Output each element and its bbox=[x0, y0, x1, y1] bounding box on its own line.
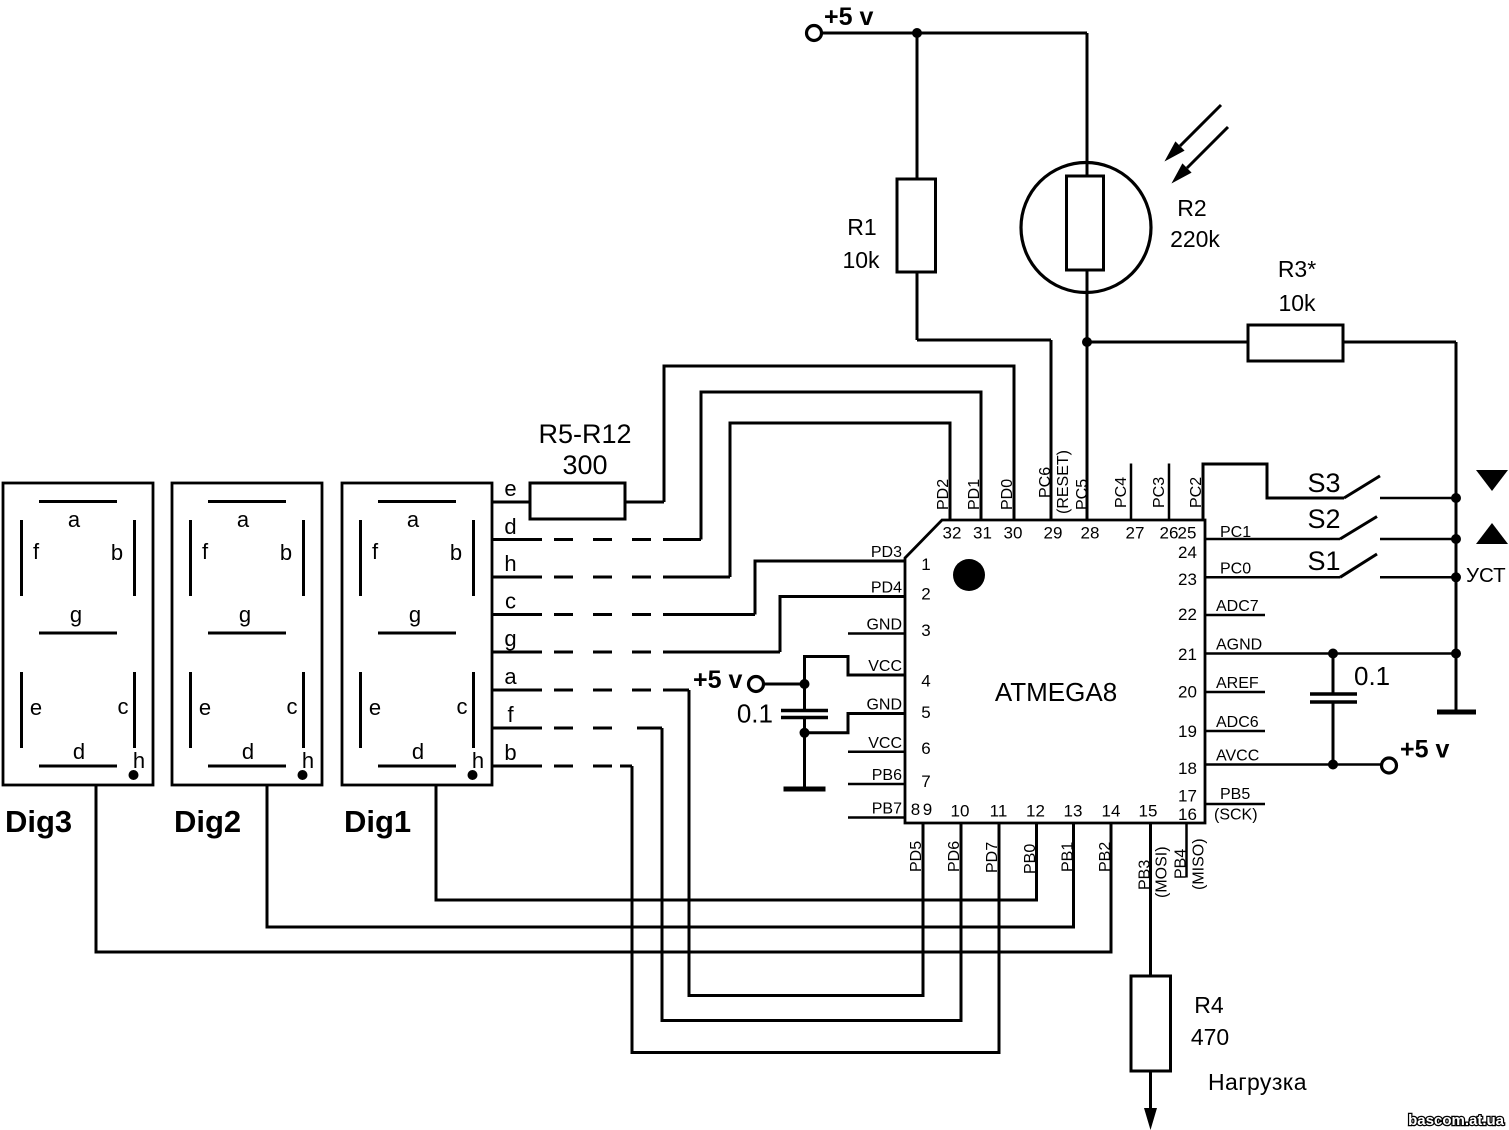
svg-text:PB1: PB1 bbox=[1060, 842, 1077, 872]
svg-text:2: 2 bbox=[921, 585, 930, 604]
svg-text:20: 20 bbox=[1178, 683, 1197, 702]
svg-text:6: 6 bbox=[921, 739, 930, 758]
svg-text:e: e bbox=[199, 695, 211, 720]
svg-text:PC2: PC2 bbox=[1188, 477, 1205, 508]
svg-text:Dig3: Dig3 bbox=[5, 804, 72, 839]
svg-text:+5 v: +5 v bbox=[693, 666, 742, 694]
svg-text:S3: S3 bbox=[1307, 468, 1340, 498]
svg-text:21: 21 bbox=[1178, 645, 1197, 664]
svg-text:a: a bbox=[68, 507, 81, 532]
svg-text:PD5: PD5 bbox=[908, 841, 925, 872]
svg-text:g: g bbox=[239, 602, 251, 627]
svg-text:f: f bbox=[372, 539, 379, 564]
svg-text:c: c bbox=[287, 694, 298, 719]
svg-text:VCC: VCC bbox=[868, 658, 902, 675]
svg-text:31: 31 bbox=[973, 524, 992, 543]
svg-text:R1: R1 bbox=[847, 214, 876, 240]
svg-text:AGND: AGND bbox=[1216, 637, 1262, 654]
svg-text:b: b bbox=[504, 740, 516, 765]
svg-text:27: 27 bbox=[1126, 524, 1145, 543]
svg-text:1: 1 bbox=[921, 555, 930, 574]
svg-text:22: 22 bbox=[1178, 605, 1197, 624]
svg-text:c: c bbox=[118, 694, 129, 719]
svg-text:PC3: PC3 bbox=[1151, 477, 1168, 508]
svg-text:PD1: PD1 bbox=[966, 479, 983, 510]
svg-text:32: 32 bbox=[943, 524, 962, 543]
svg-text:18: 18 bbox=[1178, 759, 1197, 778]
svg-text:300: 300 bbox=[562, 450, 607, 480]
svg-text:PD2: PD2 bbox=[935, 479, 952, 510]
svg-text:Dig2: Dig2 bbox=[174, 804, 241, 839]
svg-text:470: 470 bbox=[1191, 1024, 1229, 1050]
svg-text:25: 25 bbox=[1178, 524, 1197, 543]
svg-text:bascom.at.ua: bascom.at.ua bbox=[1408, 1112, 1505, 1129]
svg-text:24: 24 bbox=[1178, 543, 1197, 562]
svg-text:PC0: PC0 bbox=[1220, 561, 1251, 578]
svg-text:10: 10 bbox=[951, 802, 970, 821]
svg-text:PD7: PD7 bbox=[984, 842, 1001, 873]
svg-text:b: b bbox=[280, 540, 292, 565]
svg-text:0.1: 0.1 bbox=[737, 699, 773, 729]
svg-text:GND: GND bbox=[866, 617, 902, 634]
svg-text:GND: GND bbox=[866, 697, 902, 714]
svg-text:PD6: PD6 bbox=[946, 841, 963, 872]
svg-text:VCC: VCC bbox=[868, 735, 902, 752]
svg-text:7: 7 bbox=[921, 772, 930, 791]
svg-text:5: 5 bbox=[921, 703, 930, 722]
svg-text:9: 9 bbox=[923, 800, 932, 819]
svg-text:S1: S1 bbox=[1307, 546, 1340, 576]
svg-text:8: 8 bbox=[911, 800, 920, 819]
svg-text:g: g bbox=[504, 626, 516, 651]
svg-text:PB5: PB5 bbox=[1220, 786, 1250, 803]
svg-text:26: 26 bbox=[1160, 524, 1179, 543]
svg-text:d: d bbox=[412, 739, 424, 764]
svg-text:R2: R2 bbox=[1177, 195, 1206, 221]
svg-text:(SCK): (SCK) bbox=[1214, 807, 1258, 824]
svg-text:e: e bbox=[30, 695, 42, 720]
svg-text:10k: 10k bbox=[1278, 290, 1316, 316]
svg-text:c: c bbox=[457, 694, 468, 719]
svg-text:+5 v: +5 v bbox=[1400, 736, 1449, 764]
svg-text:PB7: PB7 bbox=[872, 801, 902, 818]
svg-text:УСТ: УСТ bbox=[1466, 564, 1506, 587]
svg-text:a: a bbox=[504, 664, 517, 689]
svg-text:+5 v: +5 v bbox=[824, 3, 873, 31]
svg-text:h: h bbox=[472, 748, 484, 773]
svg-text:h: h bbox=[504, 551, 516, 576]
svg-text:f: f bbox=[202, 539, 209, 564]
svg-text:30: 30 bbox=[1004, 524, 1023, 543]
svg-text:d: d bbox=[504, 514, 516, 539]
svg-text:f: f bbox=[33, 539, 40, 564]
svg-text:PB0: PB0 bbox=[1022, 844, 1039, 874]
svg-text:R4: R4 bbox=[1194, 992, 1224, 1018]
svg-text:PC4: PC4 bbox=[1113, 477, 1130, 508]
svg-text:PD4: PD4 bbox=[871, 580, 902, 597]
svg-text:10k: 10k bbox=[842, 247, 880, 273]
svg-text:b: b bbox=[450, 540, 462, 565]
svg-text:3: 3 bbox=[921, 621, 930, 640]
svg-text:f: f bbox=[507, 702, 514, 727]
svg-text:a: a bbox=[237, 507, 250, 532]
svg-text:R5-R12: R5-R12 bbox=[538, 419, 631, 449]
svg-text:(RESET): (RESET) bbox=[1055, 450, 1072, 514]
svg-text:ATMEGA8: ATMEGA8 bbox=[995, 677, 1117, 707]
svg-text:ADC6: ADC6 bbox=[1216, 714, 1259, 731]
svg-text:d: d bbox=[73, 739, 85, 764]
svg-text:e: e bbox=[504, 476, 516, 501]
svg-text:19: 19 bbox=[1178, 722, 1197, 741]
svg-text:h: h bbox=[133, 748, 145, 773]
svg-text:17: 17 bbox=[1178, 787, 1197, 806]
svg-text:d: d bbox=[242, 739, 254, 764]
svg-text:g: g bbox=[409, 602, 421, 627]
svg-text:PC5: PC5 bbox=[1074, 479, 1091, 510]
svg-text:(MISO): (MISO) bbox=[1191, 838, 1208, 890]
svg-text:AREF: AREF bbox=[1216, 675, 1259, 692]
svg-text:g: g bbox=[70, 602, 82, 627]
svg-text:PD3: PD3 bbox=[871, 544, 902, 561]
svg-text:220k: 220k bbox=[1170, 226, 1220, 252]
svg-text:11: 11 bbox=[990, 802, 1008, 821]
svg-text:13: 13 bbox=[1064, 802, 1083, 821]
svg-text:Нагрузка: Нагрузка bbox=[1208, 1069, 1307, 1095]
svg-text:29: 29 bbox=[1044, 524, 1063, 543]
svg-text:ADC7: ADC7 bbox=[1216, 598, 1259, 615]
svg-text:a: a bbox=[407, 507, 420, 532]
svg-text:15: 15 bbox=[1139, 802, 1158, 821]
svg-text:12: 12 bbox=[1026, 802, 1045, 821]
svg-text:c: c bbox=[505, 589, 516, 614]
svg-text:4: 4 bbox=[921, 672, 930, 691]
svg-text:(MOSI): (MOSI) bbox=[1154, 846, 1171, 898]
svg-text:S2: S2 bbox=[1307, 504, 1340, 534]
svg-text:R3*: R3* bbox=[1278, 256, 1316, 282]
svg-text:PB6: PB6 bbox=[872, 767, 902, 784]
svg-text:28: 28 bbox=[1081, 524, 1100, 543]
svg-text:14: 14 bbox=[1102, 802, 1121, 821]
svg-text:PB2: PB2 bbox=[1097, 842, 1114, 872]
svg-text:23: 23 bbox=[1178, 570, 1197, 589]
svg-text:AVCC: AVCC bbox=[1216, 748, 1259, 765]
svg-text:b: b bbox=[111, 540, 123, 565]
svg-text:PD0: PD0 bbox=[999, 479, 1016, 510]
svg-text:Dig1: Dig1 bbox=[344, 804, 411, 839]
svg-text:PC1: PC1 bbox=[1220, 524, 1251, 541]
svg-text:0.1: 0.1 bbox=[1354, 661, 1390, 691]
svg-text:e: e bbox=[369, 695, 381, 720]
svg-text:16: 16 bbox=[1178, 805, 1197, 824]
svg-text:PC6: PC6 bbox=[1037, 467, 1054, 498]
svg-text:h: h bbox=[302, 748, 314, 773]
